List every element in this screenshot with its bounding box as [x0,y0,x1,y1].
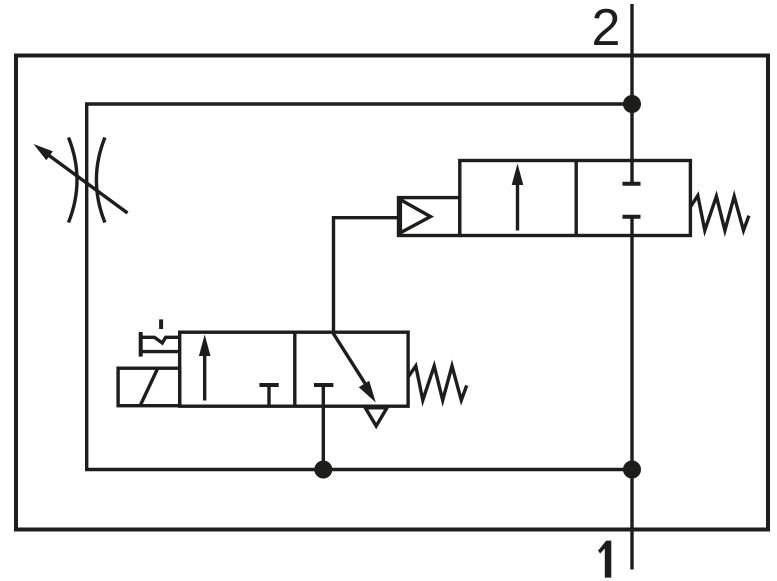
svg-text:2: 2 [592,0,621,57]
